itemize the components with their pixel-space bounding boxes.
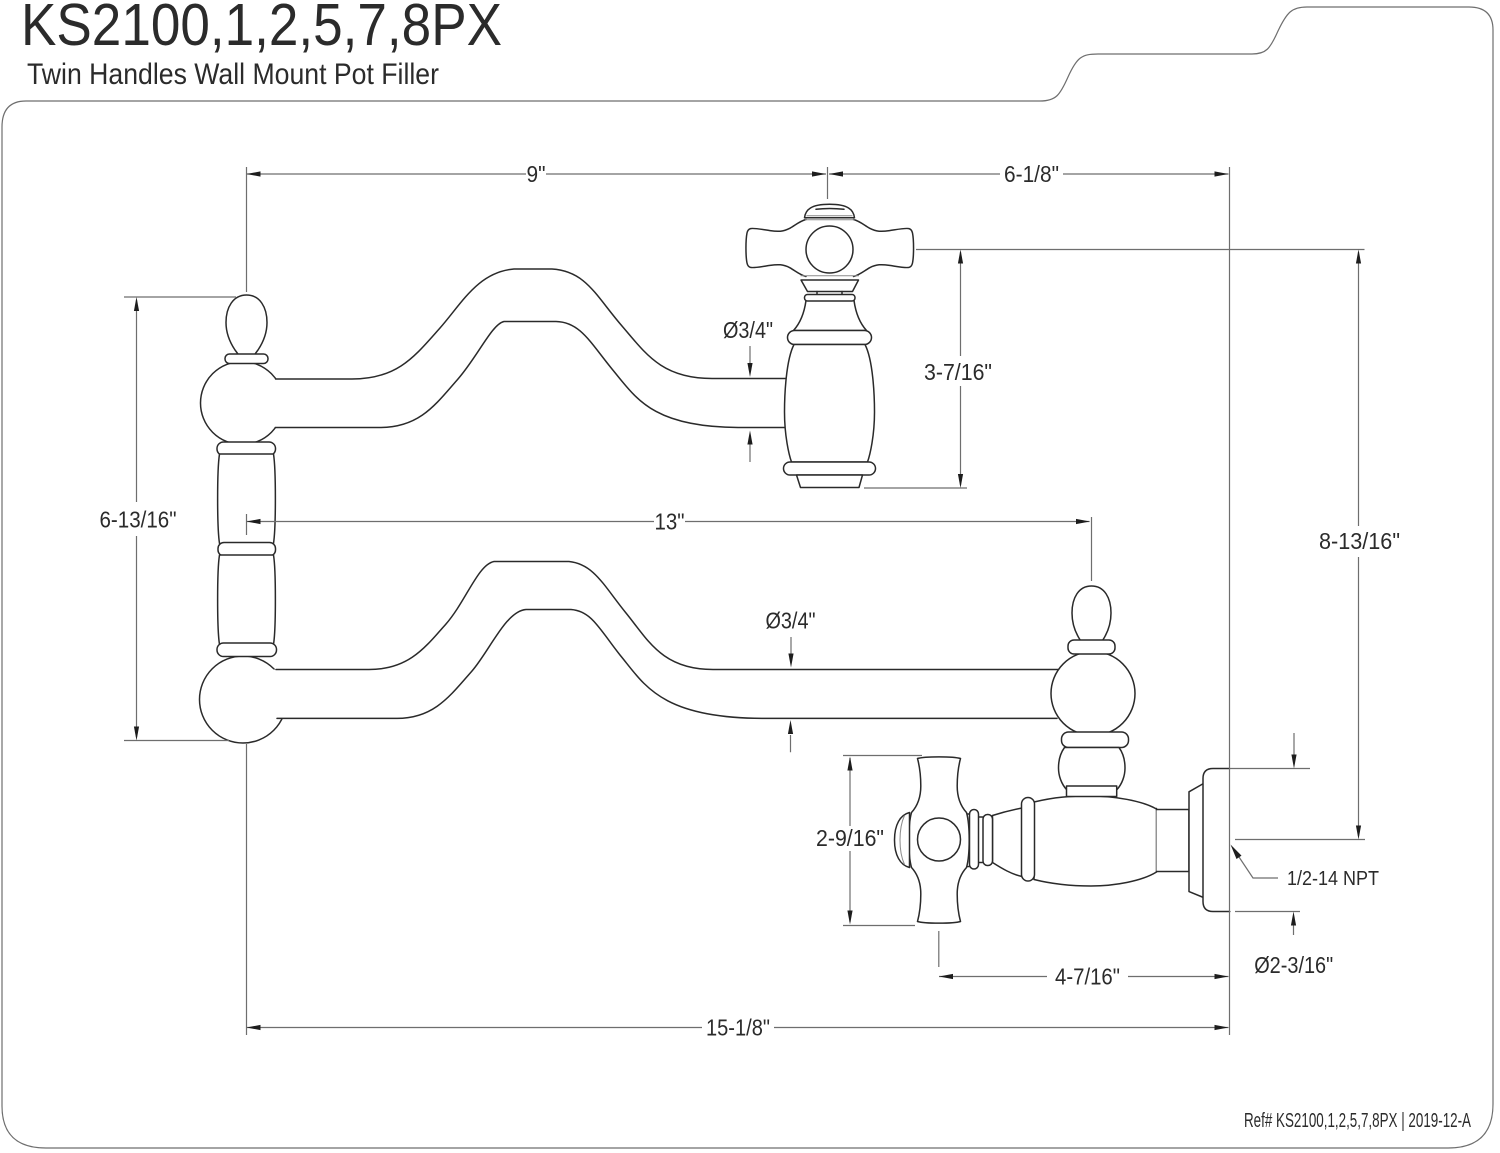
- wall line: [1229, 167, 1231, 1035]
- lower handle bone (side view): [909, 757, 969, 923]
- left column ring B: [218, 543, 276, 557]
- upper handle cross silhouette: [746, 220, 914, 277]
- dim 4-7/16" extension line: [938, 931, 940, 967]
- svg-text:Ref# KS2100,1,2,5,7,8PX | 2019: Ref# KS2100,1,2,5,7,8PX | 2019-12-A: [1244, 1110, 1471, 1132]
- lower spout arm fill: [272, 562, 1090, 719]
- upper spout arm top edge: [276, 269, 790, 379]
- dim 8-13/16" extension line bottom: [1235, 839, 1365, 841]
- svg-text:6-13/16": 6-13/16": [100, 507, 177, 533]
- stem lines: [966, 814, 970, 867]
- dim 13" extension ticks: [247, 514, 1092, 581]
- stem ring 2: [983, 815, 993, 866]
- barrel left ring: [1022, 798, 1035, 882]
- lower spout arm top edge: [276, 562, 1058, 670]
- dim 3-7/16" extension lines: [864, 250, 1365, 489]
- dim 2-9/16" extension lines: [843, 756, 922, 926]
- svg-text:15-1/8": 15-1/8": [706, 1015, 770, 1041]
- upper handle cap dome: [805, 204, 855, 218]
- dim 6-13/16" line: [136, 300, 138, 737]
- upper handle bonnet ring: [805, 295, 856, 302]
- dim 9" extension lines: [247, 167, 828, 292]
- valve neck: [1157, 810, 1190, 872]
- svg-text:1/2-14 NPT: 1/2-14 NPT: [1287, 868, 1379, 890]
- wall flange plate: [1203, 769, 1230, 912]
- left column ring A: [217, 442, 276, 456]
- left column finial egg: [226, 295, 267, 358]
- upper outlet vase bonnet: [794, 301, 867, 331]
- svg-text:Twin Handles Wall Mount Pot Fi: Twin Handles Wall Mount Pot Filler: [27, 58, 439, 91]
- lower spout arm bottom edge: [277, 610, 1057, 719]
- stem ring 1: [970, 810, 979, 870]
- handle cone (left of barrel): [993, 808, 1023, 877]
- stem connector lines: [979, 817, 984, 863]
- upper spout arm fill: [272, 269, 832, 428]
- left column segment B: [218, 555, 276, 645]
- right column finial egg: [1072, 586, 1111, 641]
- lower handle cap (side): [895, 813, 910, 868]
- right column small vase: [1059, 748, 1126, 790]
- svg-text:2-9/16": 2-9/16": [816, 825, 884, 851]
- lower handle hub circle: [918, 818, 961, 861]
- dim 8-13/16" line: [1358, 252, 1360, 836]
- svg-text:3-7/16": 3-7/16": [924, 359, 992, 385]
- dim 15-1/8" line: [247, 1027, 1229, 1029]
- svg-text:Ø2-3/16": Ø2-3/16": [1254, 952, 1333, 978]
- right column finial collar: [1068, 640, 1115, 654]
- upper outlet bottom ring: [784, 462, 876, 475]
- dim 4-7/16" line: [939, 976, 1229, 978]
- dim 13" line: [247, 521, 1090, 523]
- svg-text:8-13/16": 8-13/16": [1319, 528, 1400, 554]
- svg-text:9": 9": [527, 161, 546, 187]
- upper outlet vase body: [785, 345, 875, 463]
- upper outlet base: [797, 475, 863, 488]
- title block: [21, 0, 502, 91]
- dim 6-13/16" extension lines: [124, 297, 236, 741]
- upper outlet collar ring: [788, 331, 872, 345]
- right pivot ball: [1051, 652, 1135, 736]
- dim 6-1/8" line: [829, 173, 1229, 175]
- bonnet tick marks: [817, 292, 842, 296]
- left pivot ball bottom: [200, 656, 287, 743]
- dim 15-1/8" extension line: [246, 744, 248, 1035]
- dim 2-9/16" line: [849, 758, 851, 922]
- small vase neck band: [1067, 786, 1117, 797]
- svg-text:Ø3/4": Ø3/4": [766, 608, 816, 634]
- upper handle hub circle: [806, 226, 853, 273]
- svg-text:Ø3/4": Ø3/4": [723, 317, 773, 343]
- left column finial collar: [225, 354, 268, 364]
- left column ring C: [217, 643, 277, 657]
- label dia 2-3/16" extension lines: [1230, 769, 1310, 912]
- flange cone: [1189, 784, 1204, 898]
- right column ring: [1062, 732, 1129, 748]
- upper spout arm bottom edge: [275, 322, 790, 428]
- label 1/2-14 NPT leader: [1233, 848, 1278, 878]
- dim 3-7/16" line: [960, 252, 962, 485]
- left pivot ball top: [201, 362, 284, 445]
- svg-text:4-7/16": 4-7/16": [1055, 964, 1120, 990]
- valve barrel: [1034, 796, 1157, 886]
- svg-text:13": 13": [655, 509, 685, 535]
- svg-text:6-1/8": 6-1/8": [1004, 161, 1059, 187]
- svg-text:KS2100,1,2,5,7,8PX: KS2100,1,2,5,7,8PX: [21, 0, 502, 58]
- left column segment A: [218, 454, 276, 544]
- dim 9" line: [247, 173, 827, 175]
- upper handle skirt: [801, 280, 859, 292]
